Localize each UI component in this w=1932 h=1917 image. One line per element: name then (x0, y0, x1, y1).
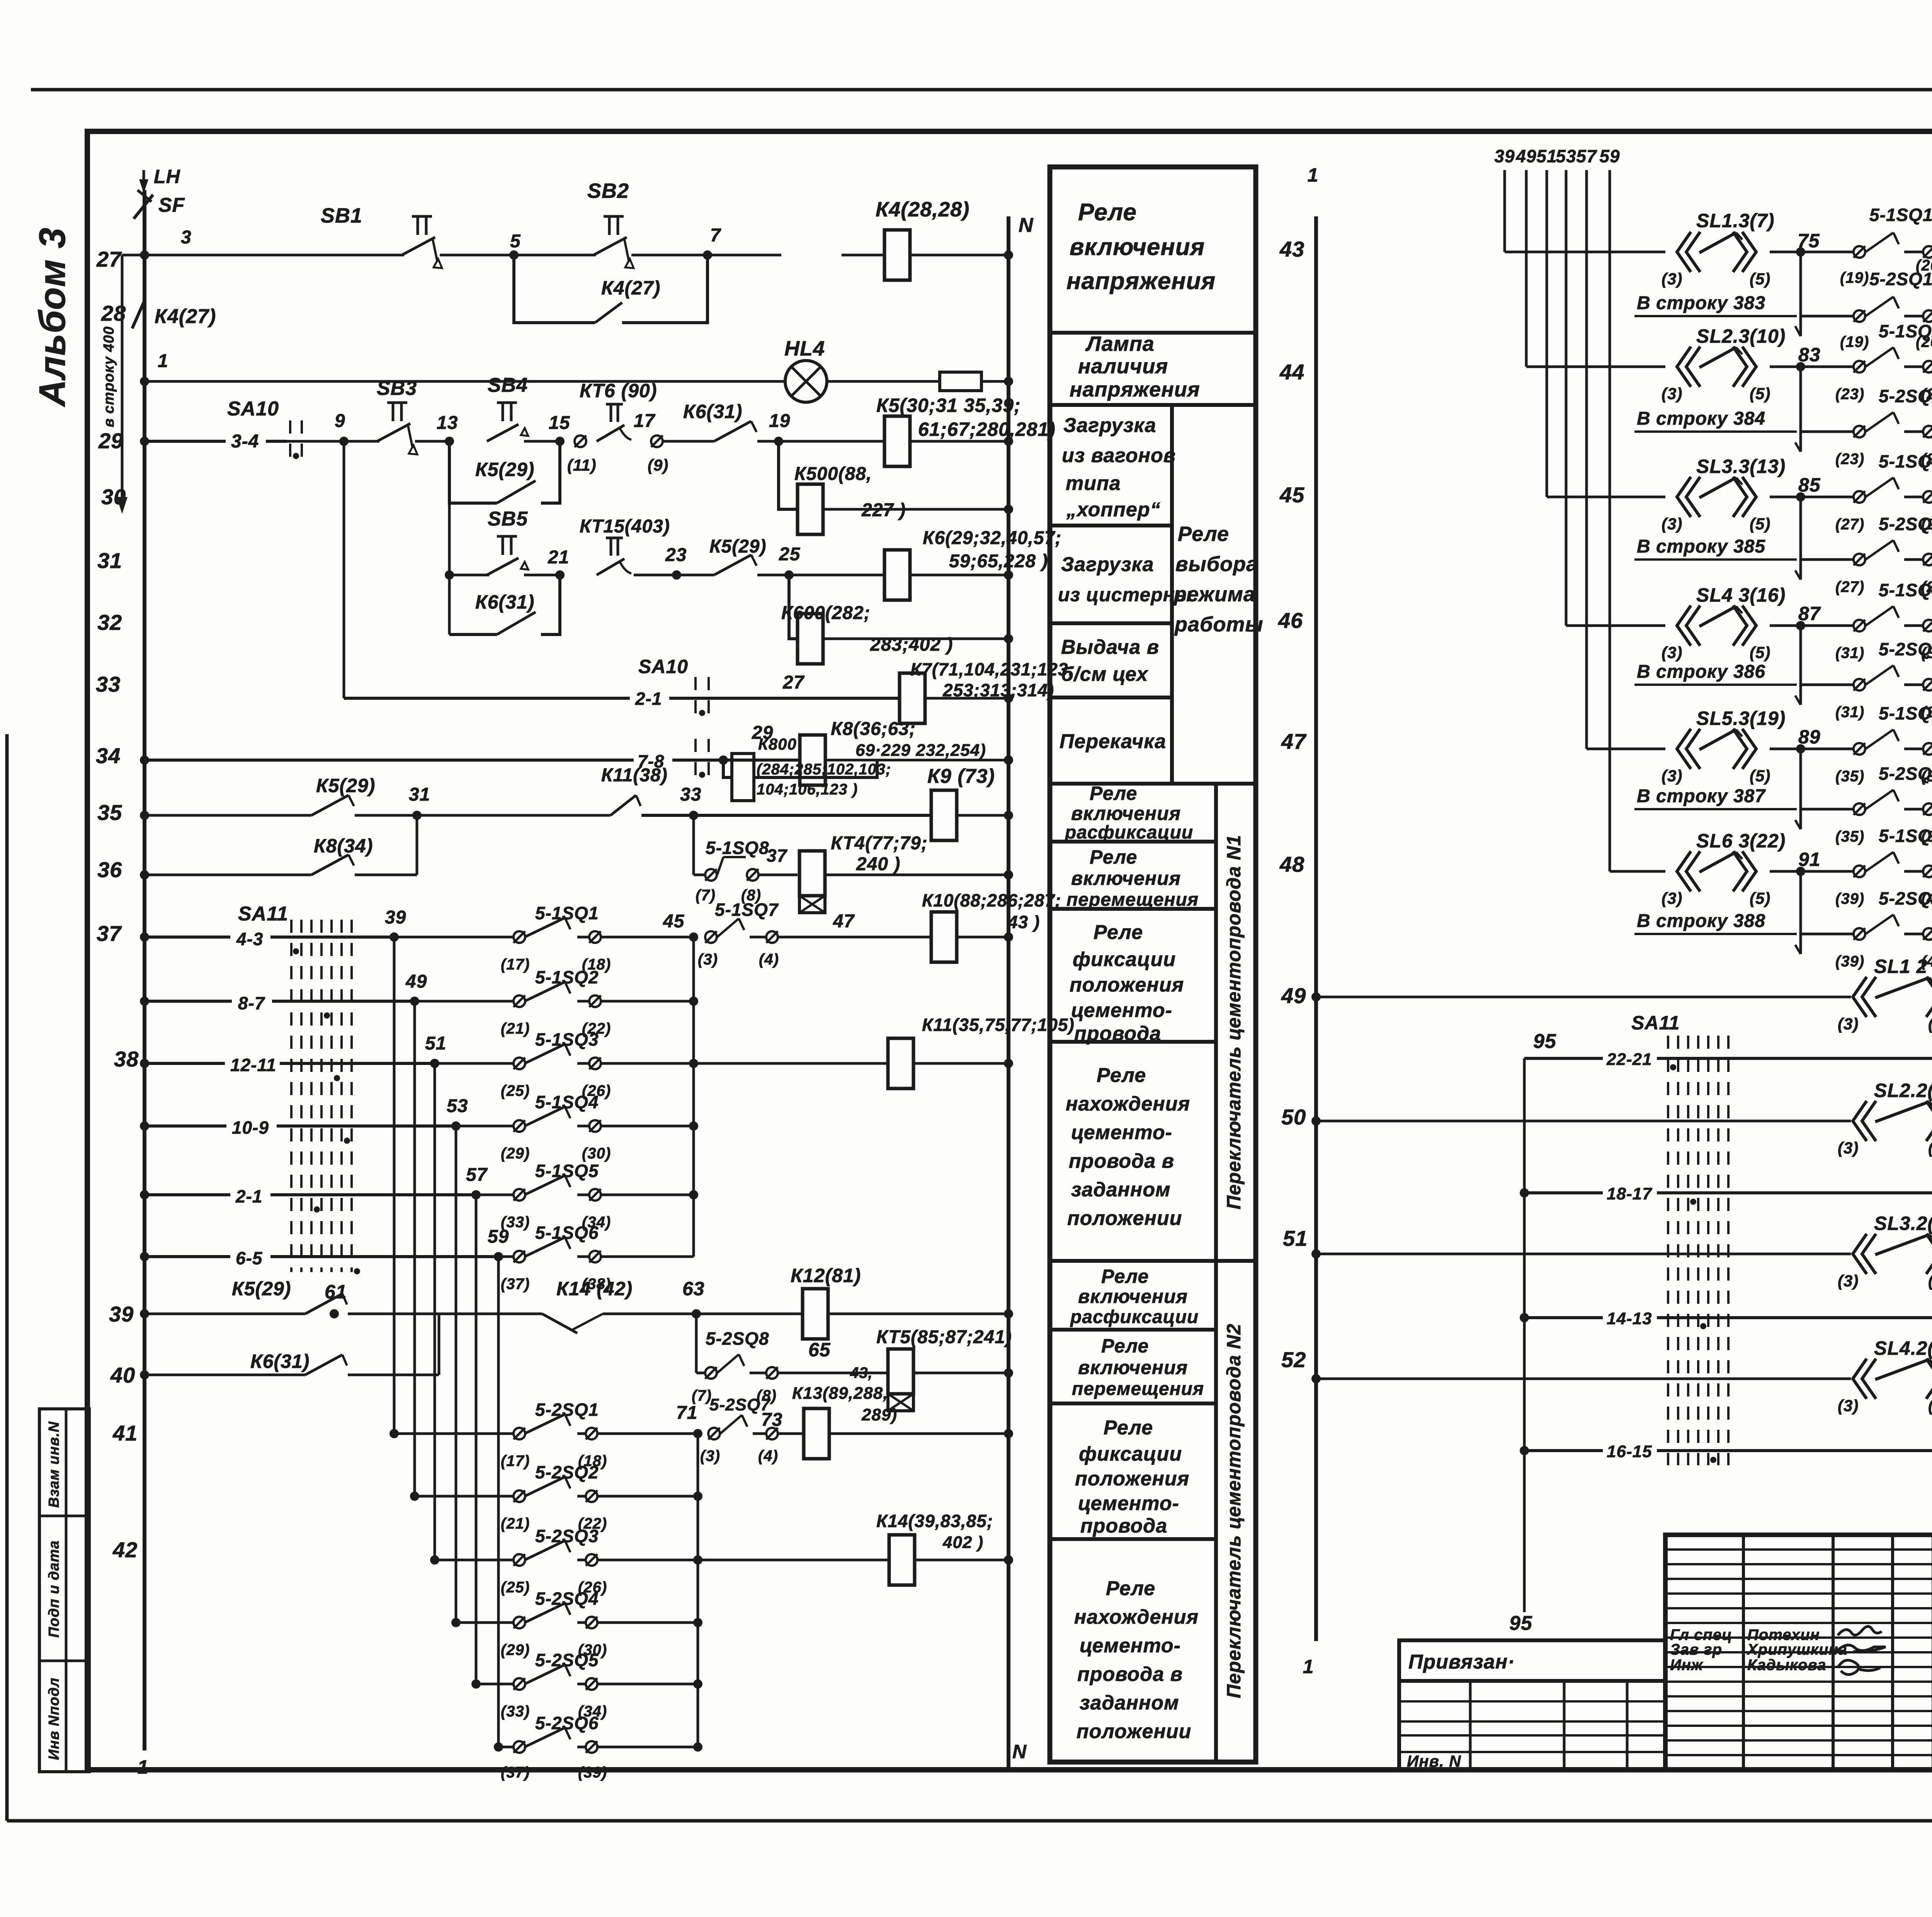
pushbutton SB4 (487, 374, 528, 441)
svg-text:Лампа: Лампа (1085, 332, 1155, 356)
svg-text:5-2SQ3: 5-2SQ3 (535, 1526, 599, 1546)
svg-text:33: 33 (96, 672, 121, 696)
pin 9 (648, 435, 668, 474)
bus wire 49 (1525, 170, 1528, 367)
svg-text:289): 289) (861, 1405, 897, 1424)
svg-text:(3): (3) (698, 951, 718, 968)
pins 5-1SQ5 (476, 1161, 694, 1231)
margin stamp boxes (39, 1409, 89, 1772)
svg-text:(5): (5) (1750, 889, 1770, 907)
svg-text:5-2SQ8: 5-2SQ8 (706, 1328, 769, 1349)
svg-text:К600(282;: К600(282; (781, 603, 871, 623)
svg-text:перемещения: перемещения (1072, 1379, 1204, 1399)
node 61 (325, 1281, 347, 1303)
wire row93 left (1311, 992, 1851, 1002)
svg-text:37: 37 (767, 845, 788, 866)
svg-text:SL2.3(10): SL2.3(10) (1696, 325, 1786, 347)
wire row39 left (140, 1309, 305, 1318)
bus from node 57 (475, 1195, 478, 1684)
node 49 (405, 971, 427, 1006)
label K500 (794, 464, 906, 520)
wire to node19 (757, 437, 885, 446)
svg-text:SА11: SА11 (1631, 1012, 1680, 1034)
svg-text:27: 27 (782, 672, 805, 693)
label LH (154, 166, 180, 187)
svg-text:(5): (5) (1750, 515, 1770, 533)
wire row97 left (1311, 1116, 1851, 1126)
svg-text:Кадыкова: Кадыкова (1747, 1657, 1826, 1674)
svg-text:Переключатель цементопровода N: Переключатель цементопровода N2 (1223, 1323, 1245, 1698)
svg-text:(3): (3) (1662, 270, 1682, 288)
node 15 (549, 413, 570, 433)
svg-text:(21): (21) (501, 1515, 530, 1532)
SA11 right dots (1670, 1064, 1716, 1463)
svg-text:(17): (17) (501, 1453, 530, 1470)
wire K13 to N (829, 1429, 1013, 1438)
svg-text:работы: работы (1174, 613, 1264, 636)
signature2 (1835, 1645, 1886, 1652)
box lamp (1050, 403, 1256, 407)
svg-text:Инв. N: Инв. N (1407, 1752, 1461, 1770)
svg-text:27: 27 (96, 247, 122, 271)
pins 5-1SQ4 (1835, 580, 1932, 662)
svg-text:К11(38): К11(38) (601, 765, 668, 786)
wire row 14-13 (1524, 1309, 1932, 1328)
wire SB2 to node7 (631, 250, 712, 260)
node 91 (1798, 849, 1821, 870)
svg-text:36: 36 (97, 857, 122, 882)
svg-text:(21): (21) (501, 1020, 530, 1037)
drop node63 (695, 1314, 698, 1373)
text wagon load (1062, 414, 1176, 521)
node 87 (1798, 603, 1821, 624)
svg-text:15: 15 (549, 413, 570, 433)
relay coil K13 (804, 1408, 829, 1459)
wire row 5-2SQ4 (451, 1603, 702, 1628)
box move relay 2 (1050, 1402, 1216, 1405)
row number 29 (98, 429, 123, 453)
svg-text:(27): (27) (1835, 516, 1864, 533)
margin label podp (46, 1540, 62, 1638)
wire row 6-5 left (140, 1248, 498, 1268)
svg-text:(19): (19) (1840, 333, 1869, 350)
svg-text:43 ): 43 ) (1007, 912, 1040, 932)
svg-text:23: 23 (665, 545, 687, 565)
svg-text:SL2.2(11): SL2.2(11) (1874, 1080, 1932, 1101)
svg-text:47: 47 (1281, 729, 1307, 754)
wire to node25 (757, 570, 885, 580)
wire to node63 (603, 1309, 803, 1318)
relay coil K7 (900, 673, 925, 723)
pins 5-1SQ8 (694, 857, 798, 881)
pins 5-1SQ1 row43 (1840, 205, 1932, 286)
node 13 (437, 413, 458, 433)
svg-text:(31): (31) (1835, 704, 1864, 721)
wire row1 (140, 377, 786, 386)
svg-text:Реле: Реле (1094, 921, 1143, 944)
svg-text:9: 9 (335, 411, 345, 431)
wire KT5 to N (913, 1368, 1013, 1378)
contact K11(38) (601, 765, 668, 815)
wire K9 to N (957, 811, 1013, 820)
svg-text:13: 13 (437, 413, 458, 433)
breaker SF (134, 190, 153, 255)
row number 42 (112, 1538, 138, 1562)
row number 48 (1279, 852, 1304, 876)
svg-text:В строку 385: В строку 385 (1637, 536, 1765, 557)
svg-text:К10(88;286;287;: К10(88;286;287; (922, 890, 1061, 910)
neutral rail N (left) (1007, 216, 1010, 1770)
svg-text:5-2SQ1: 5-2SQ1 (1869, 269, 1932, 289)
arrow LH (139, 170, 148, 193)
drop 75 to 383 (1795, 252, 1801, 336)
svg-text:5: 5 (510, 231, 521, 252)
bus wire 53 (1565, 170, 1568, 626)
svg-text:(3): (3) (1662, 767, 1682, 785)
svg-text:К4(27): К4(27) (155, 305, 216, 328)
wire to node 83 (1770, 362, 1854, 371)
svg-text:87: 87 (1798, 603, 1821, 624)
selector SA10 row29 (227, 398, 344, 463)
pins 5-2SQ7 (708, 1415, 804, 1439)
svg-text:39: 39 (385, 907, 406, 928)
wire row 5-2SQ5 (471, 1665, 702, 1690)
svg-text:Загрузка: Загрузка (1063, 414, 1156, 437)
svg-text:1: 1 (138, 1756, 149, 1778)
switch2 subcolumn (1214, 1261, 1218, 1762)
svg-text:К8(36;63;: К8(36;63; (831, 719, 916, 739)
label 5-2SQ7 (700, 1395, 778, 1465)
svg-text:32: 32 (97, 610, 122, 634)
svg-text:Реле: Реле (1078, 199, 1137, 226)
svg-text:Инв Nподл: Инв Nподл (46, 1677, 62, 1760)
inv n label (1407, 1752, 1461, 1770)
wire row35 left (140, 811, 311, 820)
text lamp (1070, 332, 1200, 401)
wire to coil K4 (842, 254, 884, 257)
svg-text:104;106,123 ): 104;106,123 ) (757, 781, 858, 798)
label K14 (876, 1511, 993, 1552)
svg-text:К6(31): К6(31) (683, 401, 742, 422)
label K8 (831, 719, 986, 760)
svg-text:заданном: заданном (1071, 1179, 1171, 1201)
svg-text:LH: LH (154, 166, 180, 187)
svg-text:40: 40 (110, 1363, 135, 1387)
svg-text:51: 51 (1283, 1226, 1308, 1250)
row number 50 (1281, 1105, 1306, 1129)
node 95 bottom (1509, 1612, 1532, 1635)
wire SB3 to node13 (415, 437, 454, 446)
node 7 (710, 225, 721, 246)
svg-text:5-1SQ4: 5-1SQ4 (1879, 580, 1932, 600)
mode select subcolumn (1050, 405, 1256, 784)
svg-text:напряжения: напряжения (1070, 378, 1200, 401)
svg-text:65: 65 (808, 1339, 831, 1361)
row number 32 (97, 610, 122, 634)
relay coil K800 (723, 754, 877, 801)
label K5 (876, 395, 1056, 440)
node 85 (1798, 474, 1821, 496)
svg-text:(39): (39) (1835, 890, 1864, 907)
level switch SL4 3(16) (1662, 584, 1786, 662)
svg-text:22-21: 22-21 (1606, 1050, 1652, 1069)
drop to 386 (1795, 626, 1801, 705)
svg-text:Инж: Инж (1670, 1657, 1704, 1674)
node 9 (335, 411, 349, 446)
svg-text:SB5: SB5 (488, 508, 528, 530)
svg-text:(3): (3) (1662, 515, 1682, 533)
svg-text:31: 31 (97, 548, 122, 573)
svg-text:положения: положения (1075, 1468, 1189, 1490)
rail bottom label 1 (138, 1756, 149, 1778)
text cistern load (1058, 553, 1192, 606)
label 1 bottom right ladder (1303, 1656, 1314, 1677)
text switch2 rotated (1223, 1323, 1245, 1698)
wire K11 to N (913, 1059, 1013, 1068)
pins 5-2SQ3 row385 (1801, 514, 1932, 595)
text fix relay 2 (1075, 1417, 1189, 1537)
svg-text:2-1: 2-1 (235, 1186, 262, 1206)
text position relay 1 (1066, 1064, 1190, 1230)
pins 5-1SQ5 (1835, 703, 1932, 785)
wire row 18-17 (1524, 1184, 1932, 1203)
wire lamp to resistor (827, 380, 940, 383)
wire row 83 left (1526, 366, 1665, 368)
svg-text:заданном: заданном (1080, 1692, 1179, 1714)
svg-text:Хрипушкина: Хрипушкина (1747, 1641, 1847, 1658)
svg-text:(37): (37) (501, 1764, 530, 1781)
text switch1 rotated (1223, 835, 1245, 1209)
label K7 (910, 659, 1075, 700)
svg-text:перемещения: перемещения (1066, 890, 1199, 910)
relay coil K500 (779, 441, 1013, 534)
label N bottom left ladder (1012, 1741, 1027, 1762)
svg-text:(11): (11) (567, 456, 597, 474)
svg-text:В строку 387: В строку 387 (1637, 786, 1766, 806)
svg-text:5-1SQ4: 5-1SQ4 (535, 1092, 599, 1112)
svg-text:283;402 ): 283;402 ) (870, 634, 953, 655)
drop to 384 (1795, 367, 1801, 452)
svg-text:К800: К800 (758, 735, 797, 753)
text unfix relay 2 (1070, 1266, 1199, 1327)
node 29 row34 (752, 723, 773, 743)
svg-text:1: 1 (1308, 164, 1319, 186)
svg-text:Загрузка: Загрузка (1061, 553, 1154, 576)
svg-text:10-9: 10-9 (232, 1118, 269, 1138)
relay coil K4 (876, 198, 969, 280)
svg-text:К14(39,83,85;: К14(39,83,85; (876, 1511, 993, 1531)
row number 30 (101, 485, 126, 509)
label K600 (781, 603, 953, 655)
row number 45 (1279, 483, 1304, 507)
box fix relay 2 (1050, 1537, 1216, 1541)
box relay voltage on (1050, 331, 1256, 335)
svg-text:N: N (1012, 1741, 1027, 1762)
svg-text:(3): (3) (1838, 1139, 1859, 1157)
svg-text:45: 45 (1279, 483, 1304, 507)
wire drop 9 to row33 (343, 441, 345, 698)
box move relay 1 (1050, 907, 1216, 911)
svg-text:Реле: Реле (1178, 522, 1229, 546)
svg-text:63: 63 (682, 1278, 705, 1300)
bus from node 49 (413, 1001, 416, 1496)
svg-text:К6(31): К6(31) (250, 1351, 310, 1372)
signature1 (1838, 1626, 1882, 1635)
row number 27 (96, 247, 122, 271)
label K12 (791, 1265, 861, 1286)
svg-text:(5): (5) (1928, 1272, 1932, 1290)
svg-text:37: 37 (97, 921, 122, 946)
box cistern load (1050, 621, 1172, 625)
svg-text:46: 46 (1278, 608, 1303, 633)
svg-text:SL3.2(14): SL3.2(14) (1874, 1213, 1932, 1234)
svg-text:(33): (33) (501, 1703, 530, 1720)
row number 31 (97, 548, 122, 573)
svg-text:(5): (5) (1750, 643, 1770, 662)
node 33 (680, 784, 701, 805)
contact K6(31) row29 (663, 401, 757, 441)
pins 5-2SQ8 (696, 1354, 799, 1379)
svg-text:61: 61 (325, 1281, 347, 1303)
svg-text:К12(81): К12(81) (791, 1265, 861, 1286)
text v stroku 385 (1634, 536, 1797, 560)
node 95 top (1533, 1030, 1556, 1053)
svg-text:50: 50 (1281, 1105, 1306, 1129)
svg-text:N: N (1019, 214, 1034, 236)
svg-text:К14 (42): К14 (42) (556, 1278, 633, 1300)
collector bus right (689, 937, 698, 1257)
privyazan box (1399, 1640, 1665, 1681)
svg-text:SB1: SB1 (321, 204, 362, 227)
svg-text:43: 43 (1279, 237, 1304, 261)
svg-text:(4): (4) (759, 951, 779, 968)
wire to node 75 (1770, 247, 1854, 257)
pins 5-2SQ1 row383 (1801, 269, 1932, 350)
svg-text:включения: включения (1070, 234, 1205, 260)
svg-text:К6(31): К6(31) (475, 591, 534, 613)
svg-text:положении: положении (1067, 1207, 1182, 1230)
wire row40 left (140, 1370, 305, 1379)
junction bus 95 (1520, 1058, 1529, 1612)
svg-text:цементо-: цементо- (1078, 1492, 1179, 1515)
svg-text:фиксации: фиксации (1073, 948, 1176, 971)
svg-text:42: 42 (112, 1538, 138, 1562)
svg-text:7: 7 (710, 225, 721, 246)
svg-text:(29): (29) (501, 1145, 530, 1162)
svg-text:Реле: Реле (1090, 782, 1137, 804)
svg-text:89: 89 (1798, 726, 1821, 748)
album label (32, 227, 73, 407)
drop to 388 (1795, 871, 1801, 954)
svg-text:(5): (5) (1928, 1139, 1932, 1157)
svg-text:В строку 388: В строку 388 (1637, 911, 1765, 931)
node 21 (548, 547, 569, 568)
label K11 (922, 1015, 1075, 1035)
svg-text:5-1SQ2: 5-1SQ2 (1879, 321, 1932, 341)
row number 41 (112, 1421, 138, 1445)
svg-text:28: 28 (101, 301, 126, 325)
svg-text:SL4 3(16): SL4 3(16) (1696, 584, 1786, 606)
svg-text:в строку 400: в строку 400 (101, 326, 117, 427)
pins 5-2SQ6 row388 (1801, 888, 1932, 970)
lower subtable (1399, 1681, 1665, 1770)
wire row34 (140, 755, 800, 765)
margin label vzam (46, 1421, 62, 1508)
margin label inv (46, 1677, 62, 1760)
svg-text:2-1: 2-1 (635, 689, 662, 709)
node 25 (779, 544, 801, 565)
label 5-2SQ4 (501, 1589, 607, 1658)
svg-text:49: 49 (1281, 983, 1306, 1008)
selector SA10 row33 (635, 656, 709, 720)
svg-text:К13(89,288,: К13(89,288, (792, 1384, 888, 1403)
svg-text:52: 52 (1281, 1347, 1306, 1372)
text fix relay 1 (1070, 921, 1184, 1045)
node 45 (663, 911, 698, 942)
svg-text:16-15: 16-15 (1607, 1442, 1652, 1461)
wire to node 91 (1770, 867, 1854, 876)
pushbutton SB2 (587, 179, 634, 268)
level switch SL6 3(22) (1662, 830, 1786, 907)
wire row 5-2SQ6 (494, 1728, 702, 1753)
svg-text:К5(29): К5(29) (232, 1278, 291, 1300)
node 1 (158, 351, 168, 371)
wire SB5 to node21 (524, 570, 565, 580)
label 5-1SQ7 (698, 900, 779, 968)
text v stroku 386 (1634, 662, 1797, 685)
contact K5(29) row35 (311, 775, 375, 815)
svg-text:95: 95 (1509, 1612, 1532, 1635)
wire K12 to N (828, 1309, 1013, 1318)
label 5-1SQ8 (696, 838, 769, 904)
svg-text:расфиксации: расфиксации (1070, 1307, 1199, 1327)
wire K7 to N (925, 694, 1013, 703)
bus wire 59 (1609, 170, 1611, 871)
svg-text:5-1SQ5: 5-1SQ5 (535, 1161, 599, 1181)
label 5-2SQ3 (501, 1526, 607, 1596)
svg-text:положении: положении (1077, 1720, 1191, 1743)
svg-text:(284;285;102,103;: (284;285;102,103; (757, 761, 891, 778)
time relay coil KT4 (799, 851, 825, 913)
row number 43 (1279, 237, 1304, 261)
wire to node 87 (1770, 621, 1854, 630)
level switch SL4.2(17) (1838, 1337, 1932, 1415)
node 89 (1798, 726, 1821, 748)
svg-text:(4): (4) (758, 1448, 778, 1465)
selector SA10 row34 (638, 739, 709, 781)
lamp HL4 (784, 337, 827, 402)
svg-text:35: 35 (97, 800, 122, 825)
svg-text:57: 57 (466, 1165, 488, 1185)
svg-text:включения: включения (1078, 1286, 1188, 1307)
svg-text:1: 1 (1303, 1656, 1314, 1677)
pins 5-2SQ4 row386 (1801, 639, 1932, 721)
svg-text:(9): (9) (648, 456, 668, 474)
svg-text:КТ6 (90): КТ6 (90) (580, 380, 657, 401)
drop to 387 (1795, 749, 1801, 829)
svg-text:б/см цех: б/см цех (1061, 663, 1148, 685)
relay coil K5 (884, 416, 910, 466)
text pump over (1060, 730, 1166, 753)
svg-text:(39): (39) (578, 1764, 607, 1781)
row number 47 (1281, 729, 1307, 754)
svg-text:КТ4(77;79;: КТ4(77;79; (831, 833, 928, 854)
wire row 5-2SQ3 (430, 1541, 702, 1566)
wire row99 left (1311, 1249, 1851, 1259)
svg-text:53: 53 (1556, 146, 1576, 166)
svg-text:выбора: выбора (1175, 553, 1258, 576)
svg-text:8-7: 8-7 (238, 993, 265, 1013)
